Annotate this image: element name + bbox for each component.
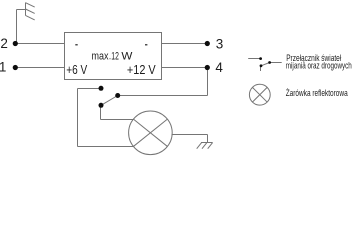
svg-text:Żarówka reflektorowa: Żarówka reflektorowa — [286, 88, 349, 98]
svg-text:mijania oraz drogowych: mijania oraz drogowych — [286, 61, 352, 71]
svg-text:W: W — [121, 51, 133, 63]
svg-text:12: 12 — [111, 51, 119, 63]
svg-text:1: 1 — [0, 60, 6, 75]
svg-text:3: 3 — [216, 37, 224, 52]
svg-text:+12 V: +12 V — [127, 62, 156, 77]
svg-text:4: 4 — [215, 60, 223, 75]
svg-text:2: 2 — [0, 36, 8, 51]
svg-text:+6 V: +6 V — [66, 62, 87, 77]
svg-text:max: max — [92, 51, 109, 63]
